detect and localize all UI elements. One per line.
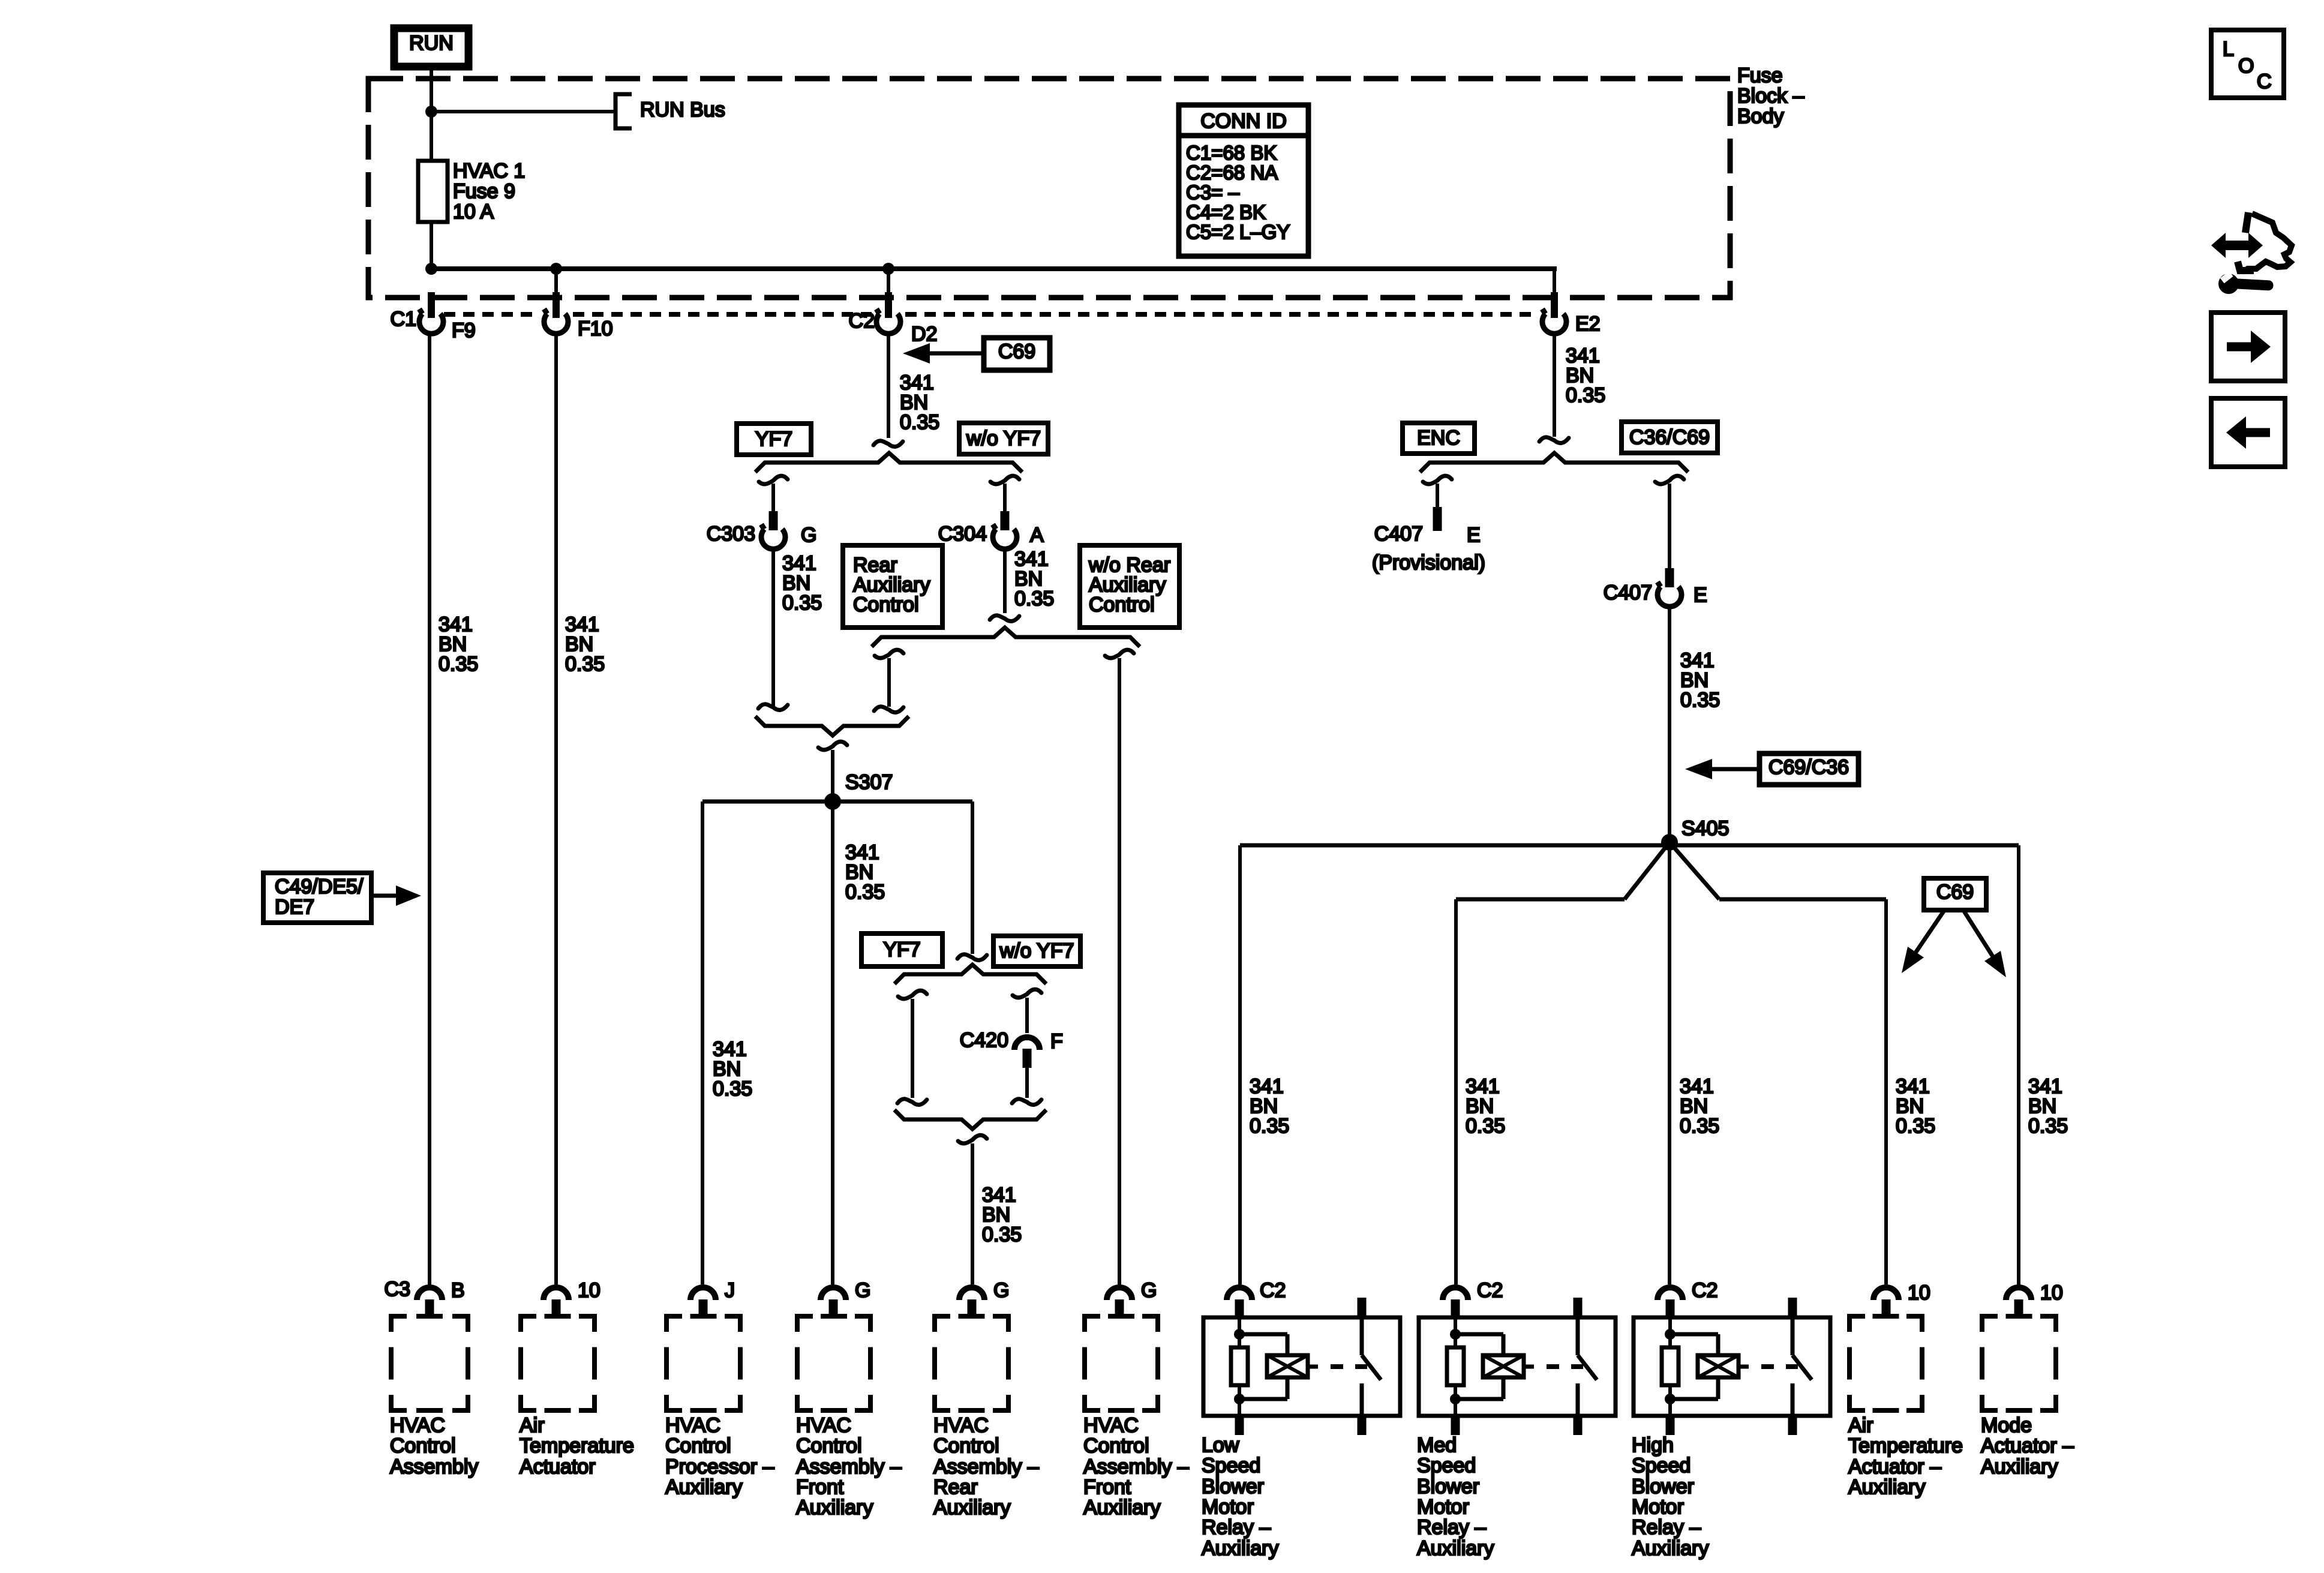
svg-text:E2: E2 — [1575, 313, 1601, 335]
svg-text:Relay –: Relay – — [1202, 1516, 1271, 1539]
svg-text:Control: Control — [390, 1434, 456, 1457]
svg-text:F9: F9 — [452, 319, 476, 342]
svg-text:E: E — [1694, 584, 1707, 607]
svg-text:Assembly –: Assembly – — [933, 1455, 1039, 1478]
svg-text:Front: Front — [796, 1476, 844, 1499]
svg-text:10: 10 — [578, 1279, 600, 1302]
svg-text:Processor –: Processor – — [665, 1455, 774, 1478]
svg-text:Auxiliary: Auxiliary — [796, 1496, 873, 1519]
svg-text:Motor: Motor — [1632, 1496, 1684, 1518]
svg-text:Fuse 9: Fuse 9 — [453, 180, 515, 203]
svg-text:B: B — [451, 1279, 465, 1302]
svg-text:C2: C2 — [1692, 1279, 1718, 1302]
svg-text:Actuator: Actuator — [520, 1455, 596, 1478]
svg-text:0.35: 0.35 — [1250, 1115, 1289, 1137]
svg-text:CONN ID: CONN ID — [1200, 110, 1287, 133]
svg-text:A: A — [1030, 524, 1044, 547]
svg-text:Mode: Mode — [1981, 1414, 2032, 1437]
svg-text:YF7: YF7 — [755, 428, 792, 451]
svg-text:HVAC: HVAC — [1083, 1414, 1139, 1437]
svg-text:Assembly –: Assembly – — [1083, 1455, 1189, 1478]
svg-text:C1: C1 — [391, 308, 416, 331]
svg-text:Low: Low — [1202, 1434, 1239, 1457]
svg-text:Auxiliary: Auxiliary — [1202, 1537, 1278, 1560]
svg-text:Actuator –: Actuator – — [1848, 1455, 1941, 1478]
svg-text:C3= –: C3= – — [1186, 181, 1240, 203]
svg-text:Blower: Blower — [1202, 1475, 1264, 1498]
svg-text:0.35: 0.35 — [982, 1223, 1022, 1246]
svg-text:C69: C69 — [1936, 881, 1974, 903]
svg-text:C: C — [2257, 70, 2272, 93]
svg-text:HVAC 1: HVAC 1 — [453, 160, 525, 182]
svg-text:Control: Control — [665, 1434, 731, 1457]
svg-text:C2: C2 — [849, 310, 875, 332]
svg-text:J: J — [725, 1279, 735, 1302]
svg-text:E: E — [1467, 524, 1481, 547]
svg-text:Body: Body — [1737, 105, 1784, 128]
svg-text:F: F — [1050, 1030, 1063, 1053]
svg-text:Auxiliary: Auxiliary — [1083, 1496, 1160, 1519]
svg-text:10 A: 10 A — [453, 200, 494, 223]
svg-text:C304: C304 — [938, 523, 987, 545]
svg-text:0.35: 0.35 — [900, 411, 939, 434]
svg-text:0.35: 0.35 — [1014, 587, 1054, 610]
svg-text:ENC: ENC — [1417, 427, 1460, 449]
svg-text:10: 10 — [2040, 1281, 2063, 1304]
svg-text:0.35: 0.35 — [713, 1077, 752, 1100]
svg-text:0.35: 0.35 — [1896, 1115, 1935, 1137]
svg-text:Auxiliary: Auxiliary — [933, 1496, 1010, 1519]
svg-text:0.35: 0.35 — [1566, 384, 1605, 407]
svg-text:C4=2 BK: C4=2 BK — [1186, 201, 1266, 223]
svg-text:HVAC: HVAC — [390, 1414, 445, 1437]
svg-text:0.35: 0.35 — [1466, 1115, 1505, 1137]
svg-text:C407: C407 — [1604, 581, 1652, 604]
svg-text:RUN: RUN — [409, 32, 454, 55]
svg-text:HVAC: HVAC — [933, 1414, 989, 1437]
svg-text:Block –: Block – — [1737, 85, 1804, 107]
svg-text:HVAC: HVAC — [796, 1414, 851, 1437]
svg-text:Control: Control — [853, 593, 919, 616]
svg-text:(Provisional): (Provisional) — [1372, 551, 1485, 574]
svg-text:C1=68 BK: C1=68 BK — [1186, 142, 1277, 164]
svg-text:10: 10 — [1908, 1281, 1930, 1304]
svg-text:0.35: 0.35 — [2028, 1115, 2068, 1137]
svg-text:Speed: Speed — [1417, 1454, 1476, 1477]
svg-text:Motor: Motor — [1417, 1496, 1469, 1518]
svg-text:C5=2 L–GY: C5=2 L–GY — [1186, 221, 1290, 243]
svg-text:Relay –: Relay – — [1417, 1516, 1486, 1539]
svg-text:C3: C3 — [385, 1278, 410, 1301]
svg-text:Temperature: Temperature — [1848, 1434, 1963, 1457]
svg-text:HVAC: HVAC — [665, 1414, 720, 1437]
svg-text:Assembly –: Assembly – — [796, 1455, 902, 1478]
svg-text:Actuator –: Actuator – — [1981, 1434, 2074, 1457]
svg-text:Air: Air — [1848, 1414, 1873, 1437]
svg-text:Control: Control — [933, 1434, 999, 1457]
svg-text:w/o YF7: w/o YF7 — [966, 427, 1041, 450]
svg-text:Assembly: Assembly — [390, 1455, 478, 1478]
svg-text:w/o YF7: w/o YF7 — [999, 939, 1074, 962]
svg-text:O: O — [2238, 55, 2254, 77]
svg-text:C69/C36: C69/C36 — [1768, 756, 1849, 779]
svg-text:Blower: Blower — [1632, 1475, 1694, 1498]
svg-text:C2=68 NA: C2=68 NA — [1186, 161, 1278, 184]
svg-text:D2: D2 — [911, 323, 937, 346]
svg-text:G: G — [855, 1279, 870, 1302]
svg-text:C69: C69 — [998, 340, 1035, 363]
svg-text:Auxiliary: Auxiliary — [665, 1476, 742, 1499]
svg-text:0.35: 0.35 — [1680, 1115, 1719, 1137]
svg-text:0.35: 0.35 — [1680, 689, 1720, 712]
svg-text:C407: C407 — [1374, 523, 1423, 545]
svg-text:L: L — [2223, 38, 2234, 61]
svg-text:Blower: Blower — [1417, 1475, 1479, 1498]
svg-text:Temperature: Temperature — [520, 1434, 634, 1457]
svg-text:Control: Control — [1089, 593, 1155, 616]
svg-text:Speed: Speed — [1202, 1454, 1260, 1477]
svg-text:DE7: DE7 — [275, 896, 314, 918]
svg-text:0.35: 0.35 — [439, 653, 478, 676]
svg-text:S307: S307 — [845, 771, 893, 794]
svg-text:G: G — [1141, 1279, 1157, 1302]
svg-text:C2: C2 — [1477, 1279, 1503, 1302]
svg-text:G: G — [993, 1279, 1009, 1302]
svg-text:Speed: Speed — [1632, 1454, 1691, 1477]
svg-text:Med: Med — [1417, 1434, 1457, 1457]
svg-text:G: G — [801, 524, 816, 547]
svg-text:C303: C303 — [707, 523, 755, 545]
svg-text:Motor: Motor — [1202, 1496, 1254, 1518]
svg-text:Relay –: Relay – — [1632, 1516, 1701, 1539]
svg-text:F10: F10 — [578, 317, 613, 340]
svg-text:Control: Control — [1083, 1434, 1149, 1457]
svg-text:RUN Bus: RUN Bus — [640, 98, 725, 121]
svg-text:0.35: 0.35 — [845, 881, 885, 903]
svg-text:C420: C420 — [960, 1029, 1008, 1052]
svg-text:Rear: Rear — [933, 1476, 978, 1499]
svg-text:0.35: 0.35 — [565, 653, 605, 676]
svg-text:0.35: 0.35 — [782, 592, 822, 614]
svg-text:YF7: YF7 — [883, 938, 920, 961]
svg-text:Air: Air — [520, 1414, 545, 1437]
svg-text:Front: Front — [1083, 1476, 1131, 1499]
svg-text:S405: S405 — [1682, 817, 1729, 840]
svg-text:C49/DE5/: C49/DE5/ — [275, 875, 364, 898]
svg-text:High: High — [1632, 1434, 1674, 1457]
svg-text:Auxiliary: Auxiliary — [1848, 1476, 1925, 1499]
svg-text:C36/C69: C36/C69 — [1629, 426, 1710, 449]
svg-text:Auxiliary: Auxiliary — [1632, 1537, 1709, 1560]
svg-text:Auxiliary: Auxiliary — [1417, 1537, 1494, 1560]
svg-text:Control: Control — [796, 1434, 862, 1457]
svg-text:C2: C2 — [1260, 1279, 1286, 1302]
svg-text:Fuse: Fuse — [1737, 64, 1783, 87]
svg-text:Auxiliary: Auxiliary — [1981, 1455, 2058, 1478]
